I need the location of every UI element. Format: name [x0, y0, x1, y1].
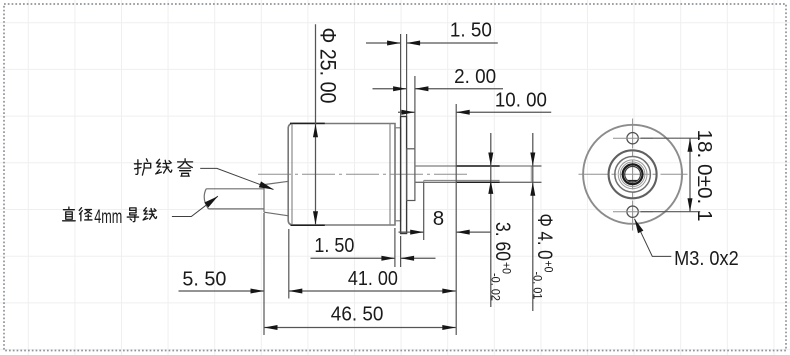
- ext line shaft end top: [531, 165, 541, 167]
- arrow phi25 bottom: [313, 211, 318, 225]
- motor body cylinder: [288, 124, 395, 226]
- dim 8 line right: [456, 231, 491, 233]
- shaft flat chord: [628, 180, 638, 182]
- svg-text:4mm: 4mm: [94, 207, 122, 228]
- boss: [407, 149, 415, 201]
- hole bottom tick: [613, 211, 653, 213]
- arrow phi4 top: [530, 153, 535, 167]
- wire bundle: [204, 189, 264, 209]
- ext line shaft end bottom: [531, 181, 541, 183]
- ext line hole bottom: [641, 211, 701, 213]
- arrow wire-sleeve: [259, 181, 274, 189]
- dim 41.00 line: [289, 290, 456, 292]
- svg-text:5. 50: 5. 50: [182, 267, 226, 290]
- arrow 10.00 right: [456, 110, 470, 115]
- ext line boss right top: [414, 76, 416, 148]
- svg-text:8: 8: [433, 207, 444, 230]
- dim 1.50 bottom line left: [311, 257, 395, 259]
- arrow 41.00 left: [289, 289, 303, 294]
- body right end-cap line: [389, 124, 391, 225]
- arrow phi4 bottom: [530, 182, 535, 196]
- ext line sleeve tip: [263, 213, 265, 335]
- svg-text:41. 00: 41. 00: [348, 267, 398, 290]
- shaft flat tick: [423, 180, 425, 182]
- flange plate: [401, 117, 407, 234]
- arrow 1.50b right: [401, 256, 415, 261]
- outer body circle: [583, 125, 682, 224]
- svg-text:10. 00: 10. 00: [495, 89, 547, 112]
- neck ring: [395, 128, 401, 221]
- ext line flange left top: [400, 34, 402, 116]
- arrow M3.0x2: [635, 219, 644, 233]
- mounting hole top: [627, 133, 638, 144]
- dim 18.0 line: [689, 138, 691, 212]
- text phi4: [531, 214, 557, 300]
- svg-text:Φ 25. 00: Φ 25. 00: [316, 28, 341, 104]
- svg-text:M3. 0x2: M3. 0x2: [674, 247, 739, 270]
- dim 1.50 top line right: [407, 42, 498, 44]
- arrow 18.0 bottom: [688, 198, 693, 212]
- dim 46.50 line: [264, 327, 456, 329]
- label hu (protect): [134, 159, 150, 175]
- shaft dark section: [456, 166, 499, 182]
- ext line 8 left: [423, 183, 425, 241]
- boss circle: [609, 150, 657, 198]
- svg-text:-0. 01: -0. 01: [531, 272, 543, 300]
- arrow 1.50t left: [387, 41, 401, 46]
- svg-text:46. 50: 46. 50: [331, 303, 384, 326]
- dim 2.00 line left: [373, 88, 407, 90]
- label xian (wire): [156, 159, 172, 174]
- dim 3.60 line: [490, 133, 492, 307]
- text phi25: [316, 28, 341, 104]
- svg-text:Φ 4. 0: Φ 4. 0: [533, 214, 556, 260]
- svg-text:18. 0±0. 1: 18. 0±0. 1: [693, 130, 716, 222]
- arrow 46.50 right: [442, 325, 456, 330]
- body bottom edge dark segment: [291, 224, 325, 226]
- arrow 18.0 top: [688, 138, 693, 152]
- label xian2 (wire): [143, 208, 157, 220]
- label tao (sleeve): [178, 159, 193, 176]
- label jing (diameter): [79, 208, 92, 221]
- svg-text:1. 50: 1. 50: [314, 234, 354, 257]
- arrow 46.50 left: [264, 325, 278, 330]
- arrow 2.00 left: [393, 86, 407, 91]
- ext line body right face bottom: [394, 228, 396, 267]
- shaft outline: [415, 166, 531, 182]
- ext line flange right top: [406, 34, 408, 116]
- arrow 1.50t right: [407, 41, 421, 46]
- arrow 5.50 left: [251, 289, 265, 294]
- dim phi4 line: [532, 133, 534, 311]
- arrow phi25 top: [313, 124, 318, 138]
- arrow 3.60 top: [488, 153, 493, 167]
- dim line phi25: [315, 24, 317, 225]
- body top edge dark segment: [290, 122, 325, 124]
- front view centerline horizontal: [579, 173, 688, 175]
- dim 10.00 line right: [456, 111, 551, 113]
- front view centerline vertical: [632, 119, 634, 232]
- leader 4mm-wire: [172, 196, 218, 216]
- svg-text:3. 60: 3. 60: [491, 222, 514, 261]
- dim 1.50 top line left: [366, 42, 401, 44]
- svg-text:2. 00: 2. 00: [454, 65, 496, 88]
- svg-text:-0. 02: -0. 02: [489, 273, 501, 301]
- label dao (lead): [127, 208, 138, 222]
- arrow 10.00 left: [401, 110, 415, 115]
- arrow 8 left: [410, 230, 424, 235]
- inner ring circle 2: [620, 162, 645, 187]
- dim 10.00 line left: [398, 111, 415, 113]
- centerline side view: [258, 173, 468, 175]
- wire sleeve: [264, 181, 289, 216]
- text 18.0: [693, 130, 716, 222]
- bearing housing circle: [615, 157, 651, 193]
- arrow 2.00 right: [415, 86, 429, 91]
- dim 8 line left: [399, 231, 424, 233]
- shaft flat line: [424, 179, 500, 181]
- leader M3.0x2: [635, 219, 672, 257]
- ext line flange left face bottom: [400, 236, 402, 267]
- label zhi (straight): [63, 207, 76, 221]
- ext line body left edge bottom: [288, 229, 290, 299]
- hole top tick: [613, 137, 653, 139]
- svg-text:1. 50: 1. 50: [450, 18, 492, 41]
- arrow 3.60 bottom: [488, 180, 493, 194]
- ext line hole top: [641, 137, 701, 139]
- mounting hole bottom: [627, 206, 638, 217]
- arrow 4mm-wire: [204, 196, 218, 207]
- text 3.60: [489, 222, 515, 301]
- inner ring circle 1: [618, 160, 647, 189]
- arrow 1.50b left: [381, 256, 395, 261]
- dim 1.50 bottom line right: [401, 257, 436, 259]
- shaft circle: [625, 166, 641, 182]
- arrow 41.00 right: [442, 289, 456, 294]
- ext line flat-start long: [455, 104, 457, 335]
- shaft hole circle: [623, 164, 643, 184]
- dim 5.50 line: [179, 290, 265, 292]
- dim 2.00 line right: [415, 88, 503, 90]
- leader wire-sleeve: [200, 168, 273, 189]
- body left end-cap line: [291, 124, 293, 225]
- arrow 8 right: [456, 230, 470, 235]
